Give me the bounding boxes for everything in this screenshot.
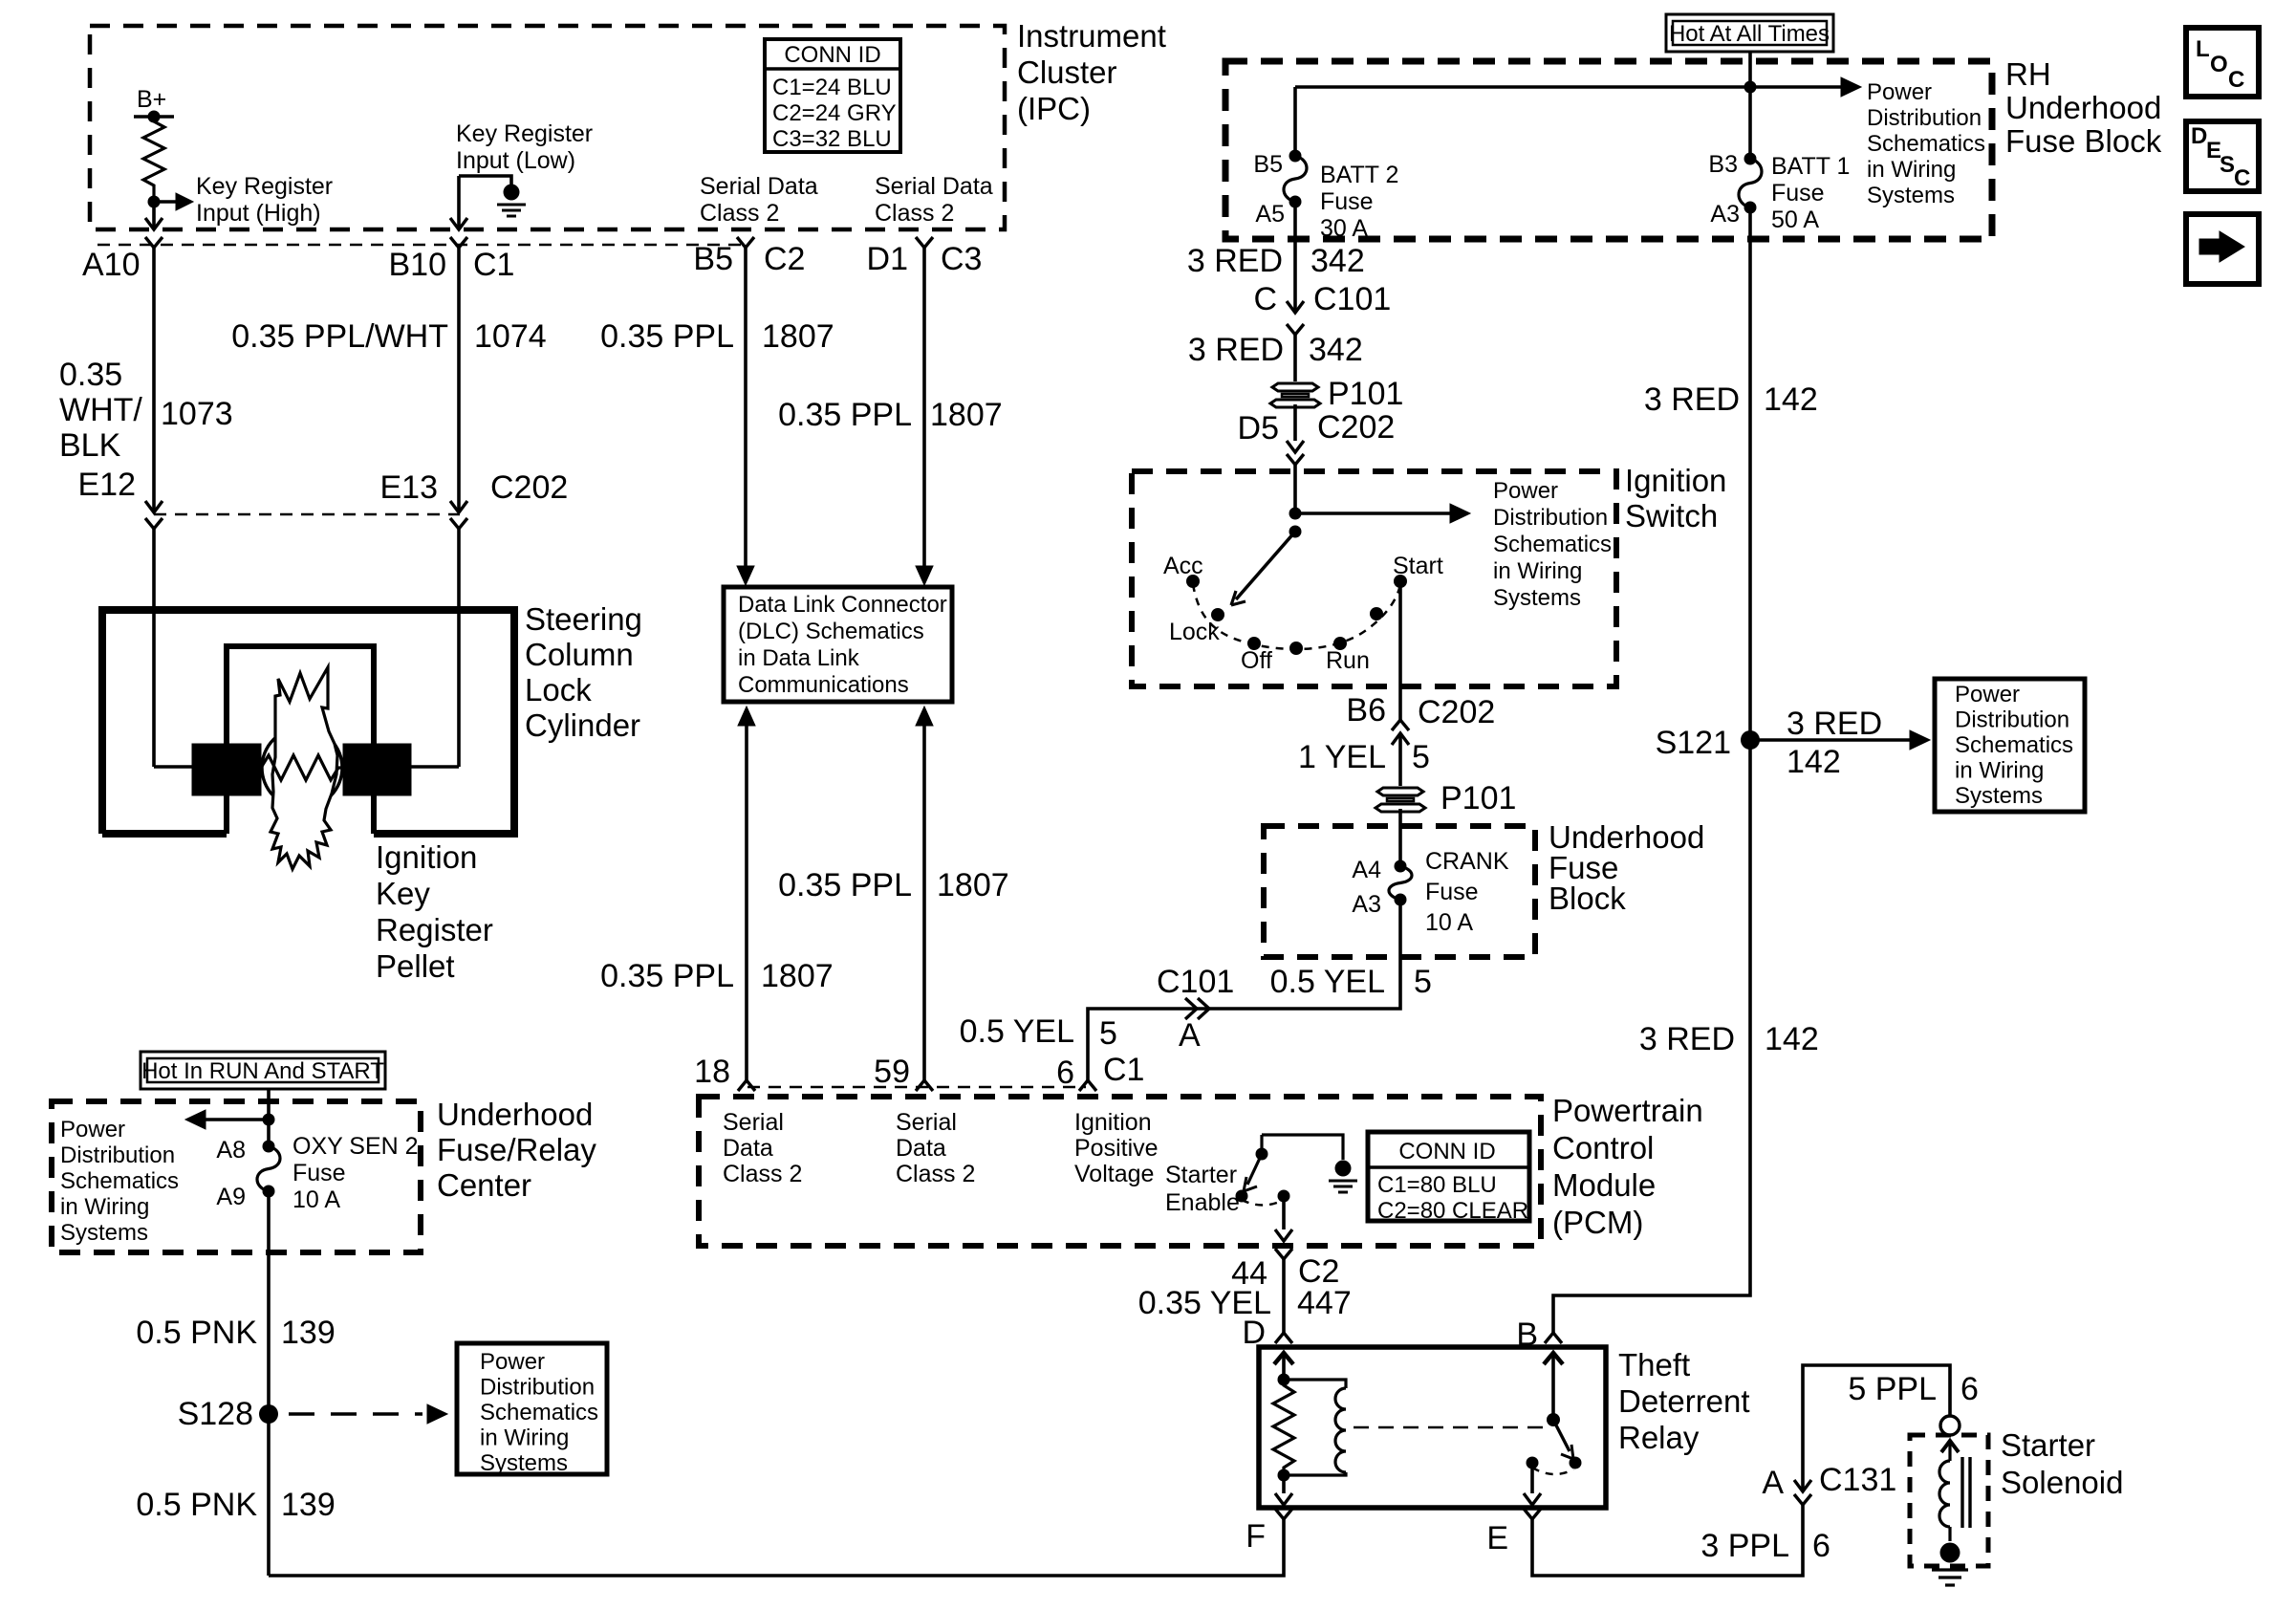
svg-text:Switch: Switch — [1625, 498, 1718, 533]
svg-text:C1: C1 — [473, 247, 514, 283]
switch starter enable pivot — [1260, 1135, 1263, 1154]
wire 3 RED 342 upper — [1293, 202, 1297, 313]
box Underhood Fuse Block — [1264, 826, 1535, 957]
svg-text:O: O — [2210, 52, 2228, 77]
wire from Hot At All Times — [1748, 52, 1752, 87]
connector relay pin F — [1275, 1509, 1292, 1519]
svg-text:1807: 1807 — [761, 958, 834, 994]
svg-text:Fuse: Fuse — [292, 1160, 346, 1186]
connector line IPC C1/C2/C3 header — [97, 244, 743, 247]
relay switch pivot — [1547, 1413, 1560, 1426]
svg-text:1807: 1807 — [762, 318, 834, 355]
svg-text:Fuse Block: Fuse Block — [2005, 123, 2162, 159]
switch starter enable blade — [1247, 1154, 1262, 1185]
svg-text:in Wiring: in Wiring — [1493, 558, 1582, 584]
svg-text:0.5 YEL: 0.5 YEL — [1270, 964, 1385, 1000]
contact Start — [1394, 575, 1407, 588]
svg-text:Underhood: Underhood — [437, 1097, 593, 1132]
svg-text:Module: Module — [1552, 1167, 1656, 1203]
svg-text:Class 2: Class 2 — [723, 1161, 802, 1187]
svg-text:50 A: 50 A — [1771, 207, 1819, 233]
connector D5 C202 (female) — [1287, 454, 1304, 465]
svg-text:B5: B5 — [1253, 151, 1283, 178]
svg-text:Schematics: Schematics — [480, 1400, 598, 1425]
arrow Key Register Input (High) — [154, 200, 178, 204]
label box Hot In RUN And START — [141, 1052, 385, 1089]
relay contact left (to E) — [1527, 1457, 1539, 1469]
wire 0.35 PPL/WHT 1074 to lock cylinder — [457, 529, 461, 767]
table CONN ID (PCM) — [1368, 1132, 1529, 1221]
wire Key Register Input (Low) to ground — [459, 176, 511, 185]
contact between Off and Run — [1289, 642, 1303, 655]
wire A10 inside IPC — [152, 202, 156, 229]
svg-text:A8: A8 — [216, 1137, 246, 1164]
arrow to Power Distribution Schematics (ignition switch) — [1295, 511, 1451, 515]
svg-text:Fuse: Fuse — [1425, 879, 1479, 905]
wire PCM starter enable to ground — [1262, 1135, 1343, 1160]
svg-text:Distribution: Distribution — [1493, 505, 1608, 531]
node B+ — [134, 115, 174, 119]
svg-text:in Wiring: in Wiring — [1867, 157, 1956, 183]
svg-text:C2=80 CLEAR: C2=80 CLEAR — [1377, 1198, 1528, 1224]
ignition switch wiper arm — [1236, 532, 1295, 599]
svg-text:C1: C1 — [1103, 1052, 1144, 1088]
svg-text:Off: Off — [1241, 647, 1272, 674]
connector line PCM C1/C2 header — [747, 1086, 1086, 1089]
svg-text:3 RED: 3 RED — [1188, 332, 1284, 368]
box Theft Deterrent Relay — [1259, 1347, 1606, 1508]
svg-text:Communications: Communications — [738, 672, 909, 698]
svg-text:Input (High): Input (High) — [196, 200, 321, 227]
starter solenoid core bars — [1960, 1457, 1963, 1528]
box Instrument Cluster (IPC) — [90, 26, 1005, 229]
wire Start to B6 — [1398, 581, 1402, 720]
svg-text:Distribution: Distribution — [60, 1142, 175, 1168]
contact Off — [1247, 637, 1261, 650]
ground (IPC key register low) — [504, 185, 520, 201]
svg-text:in Wiring: in Wiring — [1955, 758, 2044, 784]
wire 1807 DLC to PCM pin 18 — [745, 726, 748, 1080]
svg-text:C202: C202 — [1418, 694, 1495, 730]
svg-text:WHT/: WHT/ — [59, 392, 142, 428]
svg-text:Key Register: Key Register — [196, 173, 333, 200]
svg-text:Theft: Theft — [1618, 1347, 1690, 1382]
connector pin A10 — [145, 237, 162, 248]
starter solenoid terminal — [1940, 1416, 1960, 1435]
svg-text:C1=24 BLU: C1=24 BLU — [772, 75, 892, 100]
arrow to Power Distribution Schematics (top right) — [1750, 85, 1843, 89]
svg-text:CONN ID: CONN ID — [1398, 1139, 1495, 1164]
svg-text:Ignition: Ignition — [376, 839, 477, 875]
ground (PCM) — [1335, 1161, 1352, 1177]
wire 3 RED 342 lower — [1293, 335, 1297, 381]
wire PCM pin 44 inside — [1282, 1196, 1286, 1229]
svg-text:0.35: 0.35 — [59, 357, 122, 393]
svg-text:Cylinder: Cylinder — [525, 707, 640, 743]
svg-text:142: 142 — [1765, 1021, 1819, 1057]
arrow relay pin B inside — [1544, 1353, 1563, 1364]
svg-text:Schematics: Schematics — [1493, 532, 1612, 557]
svg-text:Input (Low): Input (Low) — [456, 147, 575, 174]
svg-text:5: 5 — [1099, 1015, 1117, 1052]
contact starter enable right — [1278, 1190, 1290, 1203]
svg-text:A: A — [1179, 1017, 1201, 1054]
svg-text:Systems: Systems — [1493, 585, 1581, 611]
icon box DESC — [2186, 121, 2259, 191]
svg-text:Serial Data: Serial Data — [875, 173, 993, 200]
wire to BATT 1 fuse — [1748, 87, 1752, 159]
svg-text:Instrument: Instrument — [1017, 18, 1166, 54]
connector relay pin D — [1275, 1333, 1292, 1343]
svg-text:Schematics: Schematics — [60, 1168, 179, 1194]
svg-text:Cluster: Cluster — [1017, 54, 1117, 90]
svg-text:Relay: Relay — [1618, 1420, 1700, 1455]
svg-text:Systems: Systems — [60, 1220, 148, 1246]
wire F to S128 branch (bottom) — [269, 1519, 1284, 1576]
contact Lock — [1211, 608, 1224, 621]
svg-text:10 A: 10 A — [1425, 909, 1473, 936]
wire relay pin F inside — [1282, 1475, 1286, 1493]
svg-text:E: E — [1486, 1520, 1508, 1556]
svg-text:Voltage: Voltage — [1074, 1161, 1154, 1187]
connector P101 (crank feed) — [1377, 788, 1423, 795]
svg-text:Register: Register — [376, 912, 493, 947]
svg-text:59: 59 — [874, 1054, 910, 1090]
svg-text:142: 142 — [1787, 744, 1841, 780]
svg-text:447: 447 — [1297, 1285, 1352, 1321]
svg-text:1807: 1807 — [937, 867, 1009, 903]
svg-text:L: L — [2196, 36, 2210, 62]
svg-text:Run: Run — [1326, 647, 1370, 674]
relay switch blade — [1553, 1420, 1570, 1451]
svg-text:C2: C2 — [764, 241, 805, 277]
connector pin 44 C2 — [1275, 1249, 1292, 1259]
connector C101 C (male) — [1287, 301, 1304, 313]
fuse BATT 1 50 A — [1744, 153, 1757, 165]
svg-text:Column: Column — [525, 637, 634, 672]
fuse BATT 2 30 A — [1289, 150, 1302, 163]
node S121 — [1741, 730, 1760, 750]
svg-text:Power: Power — [1867, 79, 1932, 105]
svg-text:Serial: Serial — [723, 1109, 784, 1136]
wire 3 RED 142 to relay pin B — [1553, 740, 1750, 1333]
svg-text:Systems: Systems — [1955, 783, 2043, 809]
svg-text:RH: RH — [2005, 56, 2051, 92]
svg-text:Distribution: Distribution — [480, 1375, 595, 1401]
svg-text:0.5 YEL: 0.5 YEL — [960, 1013, 1074, 1050]
svg-text:Systems: Systems — [480, 1450, 568, 1476]
icon arrow glyph — [2199, 239, 2223, 254]
box pellet inner frame — [227, 646, 374, 834]
svg-text:BATT 2: BATT 2 — [1320, 162, 1398, 188]
svg-text:P101: P101 — [1440, 780, 1516, 816]
svg-text:C101: C101 — [1157, 964, 1234, 1000]
wire from Hot In RUN And START — [267, 1089, 271, 1120]
svg-text:(PCM): (PCM) — [1552, 1205, 1643, 1240]
svg-text:3 PPL: 3 PPL — [1700, 1528, 1789, 1564]
connector pin B5/C2 — [737, 237, 754, 248]
svg-text:Control: Control — [1552, 1130, 1654, 1165]
svg-text:A3: A3 — [1352, 891, 1381, 918]
connector pin 18 — [738, 1080, 755, 1091]
node S128 — [259, 1404, 278, 1424]
connector B6 C202 (male, below) — [1392, 733, 1409, 745]
contact between Run and Start — [1370, 607, 1383, 620]
svg-text:18: 18 — [694, 1054, 730, 1090]
connector B6 C202 (female, above) — [1392, 720, 1409, 730]
svg-text:BATT 1: BATT 1 — [1771, 153, 1850, 180]
starter solenoid coil — [1948, 1443, 1951, 1461]
svg-text:C202: C202 — [1317, 409, 1395, 446]
svg-text:139: 139 — [281, 1315, 336, 1351]
connector pin 59 — [916, 1080, 933, 1091]
svg-text:Positive: Positive — [1074, 1135, 1159, 1162]
svg-text:3 RED: 3 RED — [1187, 243, 1283, 279]
contact Run — [1333, 637, 1347, 650]
svg-text:6: 6 — [1960, 1371, 1979, 1407]
svg-text:Distribution: Distribution — [1955, 707, 2069, 733]
svg-text:S: S — [2220, 152, 2235, 178]
svg-text:C3: C3 — [941, 241, 982, 277]
box RH Underhood Fuse Block — [1225, 61, 1992, 239]
arrow S121 to Power Distribution Schematics — [1750, 738, 1911, 742]
svg-text:Deterrent: Deterrent — [1618, 1383, 1750, 1419]
arrow starter solenoid inside — [1941, 1441, 1959, 1452]
svg-text:Serial: Serial — [896, 1109, 957, 1136]
box Ignition Switch — [1132, 471, 1616, 686]
relay resistor — [1273, 1380, 1294, 1475]
svg-text:D1: D1 — [867, 241, 908, 277]
svg-text:3 RED: 3 RED — [1644, 381, 1740, 418]
svg-text:Solenoid: Solenoid — [2001, 1465, 2123, 1500]
svg-text:B3: B3 — [1708, 151, 1738, 178]
svg-text:Center: Center — [437, 1167, 531, 1203]
box Power Distribution Schematics (bottom left) — [457, 1343, 607, 1474]
icon box arrow — [2186, 214, 2259, 284]
label box Hot At All Times — [1666, 14, 1833, 52]
dashed arrow S128 to Power Distribution Schematics — [289, 1412, 422, 1416]
wire hot bus — [1295, 85, 1750, 89]
pellet contact left — [192, 744, 261, 795]
svg-text:Starter: Starter — [1165, 1162, 1237, 1188]
svg-text:in Wiring: in Wiring — [60, 1194, 149, 1220]
connector D5 C202 (male) — [1287, 441, 1304, 452]
svg-text:A5: A5 — [1255, 201, 1285, 228]
svg-text:1074: 1074 — [474, 318, 547, 355]
svg-text:C: C — [1253, 281, 1277, 317]
connector relay pin B — [1545, 1333, 1562, 1343]
box Power Distribution Schematics (right) — [1935, 679, 2085, 812]
svg-text:Distribution: Distribution — [1867, 105, 1982, 131]
svg-text:Systems: Systems — [1867, 183, 1955, 208]
node relay coil top — [1278, 1374, 1290, 1386]
relay contact dashed arc — [1532, 1468, 1573, 1474]
wire 5 PPL 6 — [1803, 1365, 1950, 1491]
svg-text:Enable: Enable — [1165, 1189, 1240, 1216]
svg-text:(IPC): (IPC) — [1017, 91, 1091, 126]
svg-text:S128: S128 — [178, 1396, 253, 1432]
svg-text:0.35 PPL: 0.35 PPL — [778, 397, 912, 433]
svg-text:Serial Data: Serial Data — [700, 173, 818, 200]
relay contact right — [1570, 1457, 1582, 1469]
wire B10 inside IPC — [457, 176, 461, 229]
svg-text:Lock: Lock — [525, 672, 592, 707]
svg-text:Power: Power — [1955, 682, 2020, 707]
svg-text:D: D — [2191, 123, 2207, 149]
resistor key register (in IPC) — [143, 117, 164, 202]
wire serial data class 2 right (1807) — [922, 248, 926, 567]
fuse OXY SEN 2 10 A — [267, 1120, 271, 1146]
box Starter Solenoid — [1910, 1435, 1988, 1566]
svg-text:30 A: 30 A — [1320, 215, 1368, 242]
wire hot bus to BATT 2 fuse — [1293, 87, 1297, 156]
svg-text:CONN ID: CONN ID — [784, 42, 880, 68]
svg-text:Lock: Lock — [1169, 619, 1220, 645]
svg-text:Hot In RUN And START: Hot In RUN And START — [141, 1058, 384, 1084]
node hot bus junction — [1744, 81, 1757, 94]
svg-text:Start: Start — [1393, 553, 1443, 579]
svg-text:Data Link Connector: Data Link Connector — [738, 592, 947, 618]
connector pin 6 C1 — [1079, 1080, 1096, 1091]
svg-text:B: B — [1516, 1316, 1538, 1353]
connector relay pin E — [1524, 1509, 1541, 1519]
svg-text:Class 2: Class 2 — [700, 200, 779, 227]
wire 3 RED 142 — [1748, 207, 1752, 740]
svg-text:0.5 PNK: 0.5 PNK — [136, 1487, 257, 1523]
svg-text:1 YEL: 1 YEL — [1298, 739, 1386, 775]
svg-text:Power: Power — [60, 1117, 125, 1142]
connector E12 (male) — [145, 501, 162, 512]
svg-text:10 A: 10 A — [292, 1186, 340, 1213]
svg-text:Underhood: Underhood — [2005, 90, 2161, 125]
table CONN ID (IPC) — [765, 39, 900, 152]
svg-text:Ignition: Ignition — [1074, 1109, 1152, 1136]
node ignition switch rotor — [1289, 526, 1302, 538]
svg-text:C131: C131 — [1819, 1462, 1896, 1498]
box Underhood Fuse/Relay Center — [52, 1101, 421, 1252]
svg-text:in Wiring: in Wiring — [480, 1425, 569, 1451]
svg-text:3 RED: 3 RED — [1787, 706, 1882, 742]
ignition switch arc (dashed) — [1193, 584, 1400, 649]
svg-text:142: 142 — [1764, 381, 1818, 418]
svg-text:B+: B+ — [137, 86, 166, 113]
connector line C202 (E12-E13) — [154, 513, 460, 516]
svg-text:Class 2: Class 2 — [896, 1161, 975, 1187]
wire 1 YEL 5 — [1398, 733, 1402, 786]
svg-text:C3=32 BLU: C3=32 BLU — [772, 126, 892, 152]
svg-text:0.35 PPL: 0.35 PPL — [600, 958, 734, 994]
svg-text:Schematics: Schematics — [1867, 131, 1985, 157]
wire 0.5 YEL 5 (PCM to crank fuse) — [1088, 900, 1400, 1080]
connector C101 A (inline) — [1185, 998, 1197, 1019]
pellet lamp circle — [262, 728, 342, 808]
svg-text:6: 6 — [1812, 1528, 1830, 1564]
connector P101 (ignition feed) — [1272, 383, 1318, 391]
svg-text:D: D — [1242, 1315, 1266, 1351]
svg-text:A: A — [1762, 1465, 1784, 1501]
svg-text:Acc: Acc — [1163, 553, 1203, 579]
svg-text:P101: P101 — [1328, 376, 1403, 412]
svg-text:A10: A10 — [82, 247, 141, 283]
svg-text:CRANK: CRANK — [1425, 848, 1509, 875]
node relay coil bottom — [1278, 1469, 1290, 1482]
contact starter enable left — [1236, 1190, 1248, 1203]
svg-text:5 PPL: 5 PPL — [1848, 1371, 1937, 1407]
svg-text:342: 342 — [1309, 332, 1363, 368]
svg-text:C: C — [2234, 165, 2250, 191]
svg-text:C202: C202 — [490, 469, 568, 506]
svg-text:Data: Data — [896, 1135, 946, 1162]
svg-text:A3: A3 — [1710, 201, 1740, 228]
svg-text:Hot At All Times: Hot At All Times — [1669, 21, 1830, 47]
wire 0.35 YEL 447 — [1282, 1259, 1286, 1333]
svg-text:D5: D5 — [1238, 410, 1279, 446]
svg-text:S121: S121 — [1656, 725, 1731, 761]
wire 0.5 PNK 139 upper — [267, 1191, 271, 1414]
svg-text:A9: A9 — [216, 1184, 246, 1210]
box Data Link Connector (DLC) — [724, 587, 952, 702]
connector A C131 (male) — [1794, 1480, 1811, 1491]
arrow into DLC right — [916, 566, 933, 585]
connector E13 C202 (male) — [450, 501, 467, 512]
svg-text:Class 2: Class 2 — [875, 200, 954, 227]
node key register junction — [148, 196, 161, 208]
svg-text:Power: Power — [1493, 478, 1558, 504]
svg-text:139: 139 — [281, 1487, 336, 1523]
svg-text:BLK: BLK — [59, 427, 121, 464]
wire 1807 DLC to PCM pin 59 — [922, 726, 926, 1080]
contact Acc — [1186, 575, 1200, 588]
svg-text:Fuse/Relay: Fuse/Relay — [437, 1132, 596, 1167]
svg-text:OXY SEN 2: OXY SEN 2 — [292, 1133, 419, 1160]
wire serial data class 2 left (1807) — [744, 248, 747, 567]
svg-text:Key: Key — [376, 876, 430, 911]
svg-text:0.35 PPL: 0.35 PPL — [778, 867, 912, 903]
svg-text:C2=24 GRY: C2=24 GRY — [772, 100, 897, 126]
svg-text:(DLC) Schematics: (DLC) Schematics — [738, 619, 924, 644]
wire 3 PPL 6 (E to starter solenoid) — [1532, 1505, 1803, 1576]
icon box LOC — [2186, 28, 2259, 97]
svg-text:Fuse: Fuse — [1320, 188, 1374, 215]
svg-text:Steering: Steering — [525, 601, 642, 637]
relay actuation dashed link — [1354, 1426, 1547, 1429]
connector C101 C (female) — [1287, 324, 1304, 335]
fuse CRANK 10 A — [1395, 860, 1407, 873]
pellet flame outline — [271, 667, 337, 869]
wire relay pin E inside — [1530, 1463, 1534, 1493]
wire into ignition switch — [1293, 465, 1297, 513]
svg-text:342: 342 — [1310, 243, 1365, 279]
svg-text:Fuse: Fuse — [1771, 180, 1825, 207]
svg-text:B10: B10 — [389, 247, 447, 283]
svg-text:in Data Link: in Data Link — [738, 645, 860, 671]
connector E12 (female) — [145, 518, 162, 529]
relay coil — [1284, 1380, 1346, 1388]
svg-text:0.5 PNK: 0.5 PNK — [136, 1315, 257, 1351]
svg-text:Key Register: Key Register — [456, 120, 593, 147]
node ignition switch feed — [1289, 508, 1302, 520]
svg-text:0.35 PPL/WHT: 0.35 PPL/WHT — [231, 318, 448, 355]
arrow to Power Distribution Schematics (fuse/relay center) — [204, 1118, 269, 1121]
svg-text:1807: 1807 — [930, 397, 1003, 433]
arrow into DLC left — [737, 566, 754, 585]
svg-text:F: F — [1245, 1518, 1266, 1555]
svg-text:0.35 PPL: 0.35 PPL — [600, 318, 734, 355]
wire 0.35 WHT/BLK 1073 to lock cylinder — [152, 529, 156, 767]
connector pin B10/C1 — [450, 237, 467, 248]
pellet contact right — [343, 744, 411, 795]
svg-text:Starter: Starter — [2001, 1427, 2095, 1463]
